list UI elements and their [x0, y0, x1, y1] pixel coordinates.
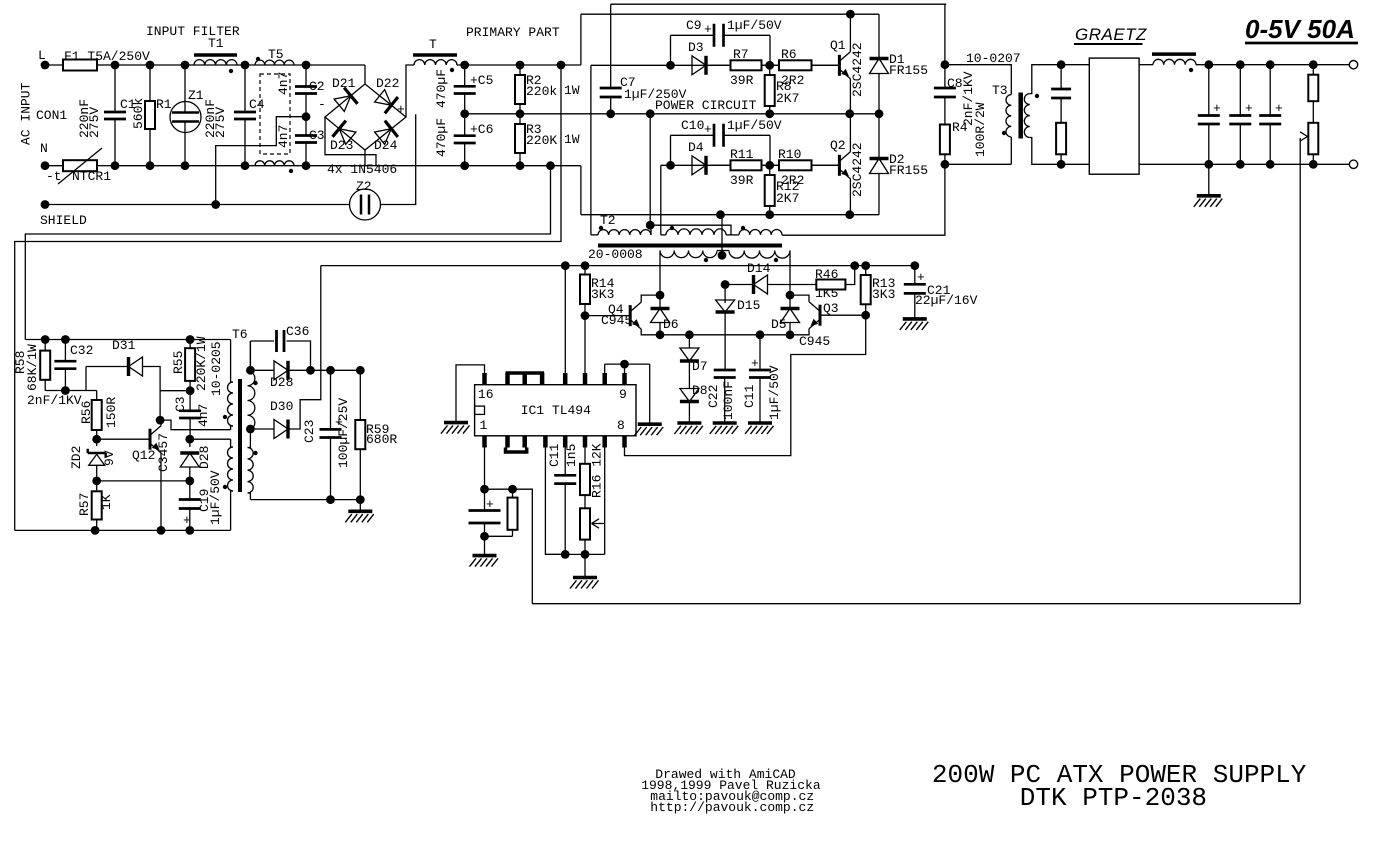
transistor Q1 2SC4242	[838, 55, 841, 76]
svg-text:4x 1N5406: 4x 1N5406	[327, 162, 397, 177]
wire bridge top corner to L rail	[364, 65, 366, 84]
ground C11	[748, 421, 772, 425]
svg-text:R4: R4	[952, 120, 968, 135]
T6 primary upper winding	[228, 382, 234, 426]
svg-text:D31: D31	[112, 338, 136, 353]
soft start resistor	[512, 489, 514, 497]
svg-text:+: +	[397, 102, 405, 117]
capacitor C3 4n7 aux	[189, 391, 191, 411]
wire cap resistor bottom	[485, 535, 513, 537]
svg-text:1K: 1K	[99, 494, 114, 510]
resistor R10 2R2	[770, 164, 779, 166]
svg-text:C32: C32	[70, 343, 93, 358]
wire feed down left inner	[25, 166, 550, 340]
wire C3 bottom to T6 lower winding	[190, 438, 231, 440]
snubber cap secondary	[1057, 60, 1066, 69]
capacitor C11 1n5 timing	[564, 443, 566, 475]
IC1 bottom bracket pins 2 3	[506, 448, 527, 453]
svg-text:AC INPUT: AC INPUT	[19, 82, 34, 145]
capacitor C36	[250, 340, 274, 342]
ground aux	[348, 509, 372, 513]
diode D5	[786, 291, 795, 300]
svg-text:D24: D24	[374, 138, 398, 153]
svg-text:+: +	[486, 497, 494, 512]
diode D28 aux	[274, 361, 288, 380]
wire power bottom rail	[581, 214, 879, 216]
svg-text:2SC4242: 2SC4242	[850, 42, 865, 97]
wire pins 10 9 to ground	[604, 364, 606, 377]
resistor R59 680R	[359, 370, 361, 420]
bridge rectifier D21 D22 D23 D24	[325, 84, 406, 150]
wire Q3 emitter	[790, 329, 809, 335]
svg-text:D6: D6	[663, 317, 679, 332]
svg-text:10-0207: 10-0207	[966, 51, 1021, 66]
output capacitor 3	[1269, 65, 1271, 116]
resistor R2 220k 1W	[519, 65, 521, 75]
wire bottom rail jog down to power bottom rail	[580, 166, 582, 215]
wire feed down left outer	[15, 65, 561, 530]
T2 primary winding G2	[666, 229, 726, 235]
svg-text:C11: C11	[547, 443, 562, 467]
wire timing ground row	[545, 553, 604, 555]
diode D2 FR155	[878, 114, 880, 157]
svg-text:T3: T3	[992, 83, 1008, 98]
resistor R8 2K7	[769, 65, 771, 75]
svg-text:1µF/50V: 1µF/50V	[208, 470, 223, 525]
svg-text:R11: R11	[730, 147, 754, 162]
wire D4 row	[661, 164, 838, 166]
wire C2C3 mid to shield	[216, 117, 306, 205]
T5 bottom winding	[255, 161, 294, 166]
Y-capacitor Z2	[350, 189, 381, 220]
resistor R7 39R	[710, 64, 731, 66]
pot wiper arrow	[1300, 132, 1308, 141]
svg-text:680R: 680R	[366, 432, 397, 447]
wire pin2 bottom to gnd row	[545, 443, 565, 554]
svg-text:2K7: 2K7	[776, 191, 799, 206]
capacitor C7 1uF/250V	[610, 65, 612, 88]
wire feedback column	[1299, 138, 1301, 604]
wire aux bottom rail	[15, 529, 231, 531]
wire zener row	[97, 480, 190, 482]
svg-text:D30: D30	[270, 399, 293, 414]
ground pins 9 10	[638, 422, 662, 426]
svg-text:T1: T1	[208, 36, 224, 51]
svg-text:DTK PTP-2038: DTK PTP-2038	[1020, 783, 1207, 813]
svg-text:-t: -t	[46, 169, 62, 184]
svg-text:C23: C23	[302, 420, 317, 443]
svg-text:Z2: Z2	[356, 179, 372, 194]
svg-text:39R: 39R	[730, 173, 754, 188]
wire bridge plus to choke T	[406, 65, 414, 117]
svg-text:470µF: 470µF	[434, 69, 449, 108]
svg-text:C3: C3	[309, 128, 325, 143]
svg-text:R56: R56	[79, 401, 94, 424]
wire mid rail	[465, 113, 879, 115]
capacitor C6 470uF	[464, 114, 466, 136]
svg-text:T2: T2	[600, 213, 616, 228]
wire output bottom rail	[1139, 163, 1349, 165]
wire L rail	[112, 64, 365, 66]
wire midline dots	[765, 109, 774, 118]
svg-text:8: 8	[617, 418, 625, 433]
T2 G1 right to midline node	[650, 225, 652, 235]
svg-text:FR155: FR155	[889, 63, 928, 78]
svg-text:100µF/25V: 100µF/25V	[336, 398, 351, 468]
svg-text:Q2: Q2	[830, 138, 846, 153]
svg-text:D22: D22	[376, 76, 399, 91]
svg-text:R57: R57	[77, 493, 92, 516]
svg-text:1µF/50V: 1µF/50V	[727, 118, 782, 133]
svg-text:NTCR1: NTCR1	[72, 169, 111, 184]
wire Q4 emitter	[641, 329, 660, 335]
diode D31	[85, 367, 87, 391]
wire Q3 collector	[790, 295, 809, 302]
resistor R4 100R/2W	[944, 120, 946, 125]
svg-text:D15: D15	[737, 298, 760, 313]
ground D8	[677, 421, 701, 425]
ground output	[1208, 164, 1210, 196]
svg-text:+: +	[1275, 101, 1283, 116]
diode D28 aux vertical	[189, 439, 191, 447]
resistor R3 220K 1W	[519, 114, 521, 124]
wire collector top line	[581, 13, 879, 15]
svg-text:Q12: Q12	[132, 448, 155, 463]
svg-text:1n5: 1n5	[564, 444, 579, 467]
wire rail to pin13	[564, 266, 566, 385]
power circuit box top	[611, 3, 947, 5]
wire bridge bottom corner to N rail	[364, 150, 366, 166]
diode D15	[721, 280, 730, 289]
output terminal -	[1349, 160, 1357, 168]
wire C8 top to T3	[945, 65, 1011, 92]
svg-text:R6: R6	[781, 47, 797, 62]
wire feedback line	[532, 603, 1300, 605]
capacitor C8 2nF/1KV	[944, 65, 946, 88]
wire driver bottom row	[660, 334, 790, 336]
svg-text:9V: 9V	[102, 450, 117, 466]
capacitor C10 1uF/50V	[671, 134, 715, 136]
svg-text:+: +	[1213, 101, 1221, 116]
svg-text:+: +	[704, 122, 712, 137]
svg-text:2SC4242: 2SC4242	[850, 142, 865, 197]
svg-text:+: +	[751, 356, 759, 371]
node C2 top	[302, 61, 311, 70]
T2 core bar	[598, 244, 782, 248]
fuse F1	[45, 64, 63, 66]
capacitor C32 2nF/1KV	[64, 340, 66, 362]
svg-text:470µF: 470µF	[434, 118, 449, 157]
resistor R11 39R	[710, 164, 731, 166]
svg-text:100R/2W: 100R/2W	[973, 102, 988, 157]
svg-text:68K/1W: 68K/1W	[25, 344, 40, 391]
svg-text:3K3: 3K3	[591, 287, 614, 302]
svg-text:275V: 275V	[87, 107, 102, 138]
T6 secondary upper winding	[248, 371, 255, 430]
wire N rail	[112, 165, 581, 167]
ground soft start	[473, 554, 497, 558]
node C2 C3 midpoint	[302, 112, 311, 121]
svg-text:C9: C9	[686, 18, 702, 33]
svg-text:C2: C2	[309, 79, 325, 94]
svg-text:220k: 220k	[526, 84, 557, 99]
svg-text:D14: D14	[747, 261, 771, 276]
diode D14	[725, 284, 753, 286]
inductor T choke	[413, 53, 457, 57]
svg-text:POWER CIRCUIT: POWER CIRCUIT	[655, 98, 757, 113]
ground timing	[573, 576, 597, 580]
svg-text:1K5: 1K5	[815, 286, 838, 301]
transistor Q3 C945	[820, 314, 866, 316]
resistor R12 2K7	[769, 165, 771, 175]
node C3 bottom	[302, 161, 311, 170]
svg-text:D5: D5	[771, 317, 787, 332]
svg-text:D28: D28	[270, 375, 293, 390]
transistor Q2 2SC4242	[838, 155, 841, 176]
wire pin1 node to feedback	[485, 488, 513, 490]
IC1 bottom pins	[482, 436, 487, 448]
ground C21	[903, 317, 927, 321]
svg-text:150R: 150R	[104, 397, 119, 428]
svg-text:+: +	[1245, 101, 1253, 116]
svg-text:4n7: 4n7	[196, 404, 211, 427]
svg-text:INPUT FILTER: INPUT FILTER	[146, 24, 240, 39]
transistor Q12 C3457	[92, 435, 101, 444]
wire R14 node down to pin12	[584, 316, 586, 385]
wire bridge minus jog	[325, 117, 376, 166]
wire T2 mid link	[650, 225, 731, 235]
resistor R55 220K/1W	[189, 340, 191, 349]
svg-text:2K7: 2K7	[776, 91, 799, 106]
svg-text:C945: C945	[799, 334, 830, 349]
T5 shield dashed box	[260, 74, 290, 154]
capacitor C4 220nF/275V	[244, 65, 246, 112]
transistor Q4 C945	[585, 315, 630, 317]
svg-text:C4: C4	[249, 97, 265, 112]
svg-text:22µF/16V: 22µF/16V	[915, 293, 978, 308]
svg-text:4n7: 4n7	[276, 72, 291, 95]
diode D1 FR155	[878, 14, 880, 57]
svg-text:+: +	[917, 270, 925, 285]
svg-text:C36: C36	[286, 324, 309, 339]
wire Q12 collector to T6	[160, 420, 231, 430]
wire aux 12V rail	[321, 265, 915, 267]
capacitor soft start	[484, 489, 486, 510]
capacitor C21 22uF/16V	[914, 266, 916, 285]
svg-text:CON1: CON1	[36, 108, 67, 123]
output choke	[1139, 64, 1153, 66]
T2 secondary center tap to power rail	[721, 215, 723, 251]
svg-text:39R: 39R	[730, 73, 754, 88]
inductor T1	[194, 53, 237, 57]
svg-text:560k: 560k	[131, 98, 146, 129]
T2 primary winding G3	[739, 230, 782, 235]
IC1 top pins	[482, 373, 487, 385]
output terminal +	[1349, 60, 1357, 68]
resistor R14 3K3	[584, 266, 586, 275]
T2 secondary winding left	[660, 251, 717, 258]
wire to graetz	[1061, 64, 1089, 66]
svg-text:T: T	[429, 37, 437, 52]
svg-text:SHIELD: SHIELD	[40, 213, 87, 228]
wire D3 row	[591, 64, 838, 66]
capacitor C1 220nF/275V	[114, 65, 116, 112]
IC1 TL494 box	[475, 385, 636, 436]
svg-text:FR155: FR155	[889, 163, 928, 178]
svg-text:+: +	[183, 513, 191, 528]
svg-text:1: 1	[480, 418, 488, 433]
wire Z2 right to mid rail	[381, 114, 416, 204]
wire aux node row A	[45, 390, 96, 392]
svg-text:220K: 220K	[526, 133, 557, 148]
svg-text:R16 12K: R16 12K	[590, 443, 605, 498]
svg-text:100nF: 100nF	[721, 381, 736, 420]
output divider resistor upper	[1312, 65, 1314, 75]
output divider resistor lower pot	[1312, 122, 1314, 124]
svg-text:ZD2: ZD2	[69, 446, 84, 469]
ground pin16	[444, 421, 468, 425]
svg-text:Q3: Q3	[823, 301, 839, 316]
resistor R46 1K5	[815, 284, 817, 286]
thermistor NTCR1	[45, 165, 63, 167]
svg-text:1µF/50V: 1µF/50V	[767, 365, 782, 420]
snubber resistor secondary	[1060, 121, 1062, 124]
svg-text:D23: D23	[330, 138, 353, 153]
svg-text:R1: R1	[156, 97, 172, 112]
capacitor C11 1uF/50V	[759, 335, 761, 370]
wire pin1 down	[484, 443, 486, 489]
output capacitor 1	[1208, 65, 1210, 116]
svg-text:D28: D28	[197, 446, 212, 469]
svg-text:R7: R7	[733, 47, 749, 62]
svg-text:0-5V 50A: 0-5V 50A	[1245, 14, 1355, 44]
common-mode choke T5 top winding	[255, 60, 294, 65]
node ZD2 bottom	[92, 477, 101, 486]
capacitor C2 4n7	[305, 65, 307, 87]
node SHIELD terminal	[41, 200, 50, 209]
wire secondary left end down	[659, 251, 661, 296]
svg-text:C3: C3	[173, 396, 188, 412]
capacitor C19 1uF/50V	[189, 481, 191, 500]
svg-text:PRIMARY PART: PRIMARY PART	[466, 25, 560, 40]
svg-text:1W: 1W	[564, 132, 580, 147]
svg-text:10-0205: 10-0205	[209, 341, 224, 396]
svg-text:GRAETZ: GRAETZ	[1075, 25, 1147, 44]
svg-text:D3: D3	[688, 40, 704, 55]
svg-text:IC1 TL494: IC1 TL494	[521, 403, 591, 418]
capacitor C3 4n7	[305, 117, 307, 136]
wire pin16 to ground	[456, 365, 485, 423]
svg-text:3K3: 3K3	[872, 287, 895, 302]
diode D7	[688, 335, 690, 348]
wire aux secondary bottom	[250, 499, 360, 501]
T6 secondary lower winding	[248, 448, 254, 494]
node N terminal	[41, 161, 50, 170]
svg-text:D21: D21	[332, 76, 356, 91]
svg-text:16: 16	[478, 387, 494, 402]
IC1 top bracket pins 15 14 13	[506, 371, 545, 375]
junction dots L rail	[111, 61, 120, 70]
GRAETZ block	[1089, 58, 1139, 174]
diode D4	[692, 156, 706, 175]
svg-text:C22: C22	[706, 385, 721, 408]
wire R4 bottom to T2 G3 right end	[782, 164, 945, 235]
resistor R6 2R2	[770, 64, 779, 66]
svg-text:R46: R46	[815, 267, 838, 282]
diode D6	[656, 291, 665, 300]
diode D3	[692, 56, 706, 75]
node L terminal	[41, 61, 50, 70]
svg-text:R10: R10	[778, 147, 801, 162]
transformer T6 core	[238, 379, 242, 492]
T2 secondary winding right	[729, 251, 790, 259]
svg-text:R55: R55	[171, 351, 186, 374]
svg-text:4n7: 4n7	[276, 125, 291, 148]
wire top rail corner up to power line	[580, 14, 582, 65]
svg-text:275V: 275V	[213, 107, 228, 138]
wire bottom rail primary dots	[460, 161, 469, 170]
wire aux top rail	[25, 339, 230, 341]
svg-text:F1 T5A/250V: F1 T5A/250V	[64, 49, 150, 64]
wire D30 to 12V rail	[289, 266, 321, 429]
svg-text:+C5: +C5	[470, 73, 493, 88]
resistor R58 68K/1W	[44, 340, 46, 351]
svg-text:C11: C11	[742, 384, 757, 408]
capacitor C23 100uF/25V	[330, 370, 332, 429]
svg-text:D7: D7	[692, 359, 708, 374]
junction dots N rail	[111, 161, 120, 170]
resistor R1 560k	[149, 65, 151, 101]
T6 primary lower winding	[228, 447, 234, 491]
node C3 bottom	[185, 435, 194, 444]
svg-text:1µF/50V: 1µF/50V	[727, 18, 782, 33]
wire Q3 node to pin8 route	[625, 315, 866, 455]
capacitor C9 1uF/50V	[671, 34, 715, 36]
resistor R16 12K and trimmer	[584, 443, 586, 464]
wire T3 bottom return	[945, 163, 1011, 165]
capacitor C22 100nF	[724, 369, 726, 371]
wire T2 G1 column	[590, 65, 592, 235]
svg-text:+C6: +C6	[470, 122, 493, 137]
svg-text:N: N	[40, 141, 48, 156]
svg-text:9: 9	[619, 387, 627, 402]
svg-text:1W: 1W	[564, 83, 580, 98]
wire shield line	[45, 204, 350, 206]
wire Q12 collector column	[159, 391, 161, 420]
resistor R56 150R	[96, 391, 98, 401]
svg-text:http://pavouk.comp.cz: http://pavouk.comp.cz	[650, 800, 814, 815]
svg-text:C10: C10	[681, 118, 704, 133]
svg-text:D4: D4	[688, 140, 704, 155]
svg-text:20-0008: 20-0008	[588, 247, 643, 262]
ground C22	[713, 421, 737, 425]
output capacitor 2	[1239, 65, 1241, 116]
Y-capacitor Z1	[184, 65, 186, 112]
wire output top rail	[1196, 64, 1349, 66]
diode D30	[246, 425, 255, 434]
diode D8	[680, 389, 699, 402]
svg-text:+: +	[704, 22, 712, 37]
svg-text:-: -	[318, 97, 326, 112]
power box right column C8 R4	[944, 4, 946, 64]
svg-text:Q1: Q1	[830, 38, 846, 53]
svg-text:220K/1W: 220K/1W	[194, 336, 209, 391]
resistor R13 3K3	[865, 266, 867, 275]
zener ZD2 9V	[96, 439, 98, 446]
trimmer wiper arrow	[592, 519, 605, 528]
wire row B	[160, 390, 190, 392]
svg-text:C3457: C3457	[156, 433, 171, 472]
